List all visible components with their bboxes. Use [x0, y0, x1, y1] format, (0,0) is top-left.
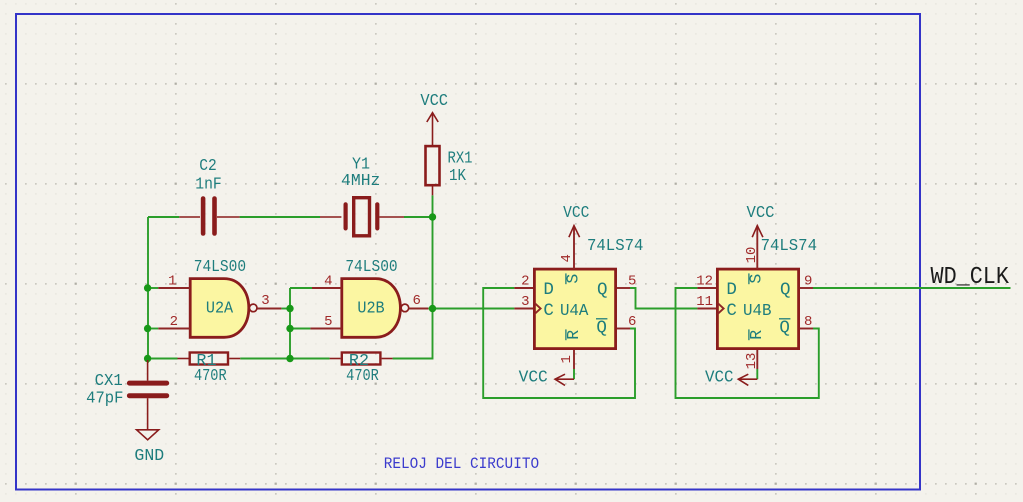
svg-text:VCC: VCC [420, 91, 448, 110]
label 47pF [86, 389, 123, 408]
pin name Rbar U4B [747, 329, 766, 340]
power VCC above RX1 [427, 113, 438, 146]
pin number 5 U4A [628, 274, 636, 290]
label 74LS74 U4B [761, 236, 817, 255]
wire C2 to Y1 [240, 216, 320, 218]
svg-text:C: C [726, 301, 737, 321]
label 470R R1 [194, 366, 227, 385]
junction node left rail pin2 [144, 325, 151, 332]
power VCC above U4B [752, 226, 763, 238]
svg-text:2: 2 [521, 274, 529, 290]
wire node to U2B pin5 [290, 328, 310, 330]
pin name C U4B [726, 301, 737, 321]
nand gate U2A [158, 279, 281, 338]
svg-text:1: 1 [168, 274, 176, 290]
pin number 1 U4A [559, 355, 575, 363]
component labels group [86, 91, 817, 465]
label U4B [743, 301, 772, 320]
svg-text:RX1: RX1 [448, 149, 473, 168]
power VCC below U4A pin1 [555, 374, 574, 385]
label C2 [199, 156, 217, 175]
svg-text:4MHz: 4MHz [341, 171, 380, 190]
wire U4A pin1 to VCC [573, 369, 575, 379]
svg-text:RELOJ DEL CIRCUITO: RELOJ DEL CIRCUITO [384, 455, 539, 473]
svg-text:U2B: U2B [357, 299, 384, 318]
label 74LS74 U4A [587, 236, 643, 255]
wire left rail vertical [147, 217, 149, 363]
pin name C U4A [543, 301, 554, 321]
pin name Qbar U4A [596, 318, 607, 338]
pin name D U4A [543, 280, 554, 300]
label 470R R2 [346, 366, 379, 385]
ground [137, 430, 159, 440]
wire left rail to R1 [148, 358, 178, 360]
wires group [148, 195, 1011, 398]
svg-text:4: 4 [559, 254, 575, 262]
label VCC below U4A [519, 368, 548, 387]
pin number 12 U4B [696, 274, 713, 290]
svg-text:VCC: VCC [519, 368, 548, 387]
wire R1 to R2 [240, 358, 329, 360]
capacitor CX1 [129, 360, 166, 430]
label VCC above RX1 [420, 91, 448, 110]
svg-text:VCC: VCC [563, 203, 589, 222]
svg-text:5: 5 [628, 274, 636, 290]
svg-text:U4A: U4A [560, 301, 589, 320]
svg-text:6: 6 [413, 293, 421, 309]
svg-text:C: C [543, 301, 554, 321]
pin name Qbar U4B [779, 318, 790, 338]
wire U4A feedback loop Qbar to D [483, 288, 635, 398]
pin number 4 U2B [324, 274, 332, 290]
wire U4A Q to U4B clock [630, 288, 697, 309]
pin name Sbar U4A [564, 273, 583, 284]
wire U2B out to U4A clock [428, 308, 514, 310]
label CX1 [95, 371, 123, 390]
flip-flop U4A [514, 226, 630, 369]
label 1K [449, 166, 466, 185]
svg-text:470R: 470R [346, 366, 379, 385]
label VCC below U4B [705, 368, 734, 387]
label 74LS00 U2B [345, 257, 397, 276]
svg-text:Q: Q [779, 318, 790, 338]
power VCC below U4B pin13 [738, 374, 757, 385]
pin number 2 U2A [170, 314, 178, 330]
svg-text:Q: Q [780, 280, 791, 300]
svg-text:WD_CLK: WD_CLK [931, 264, 1010, 291]
pin number 6 U2B [413, 293, 421, 309]
wire node to U2B pin4 [290, 287, 312, 289]
pin name Q U4A [597, 280, 608, 300]
capacitor C2 [179, 199, 239, 234]
svg-text:13: 13 [744, 353, 760, 370]
pin number 13 U4B [744, 353, 760, 370]
pin number 3 U4A [521, 294, 529, 310]
pin number 2 U4A [521, 274, 529, 290]
svg-text:1K: 1K [449, 166, 466, 185]
sheet title RELOJ DEL CIRCUITO [384, 455, 539, 473]
svg-text:6: 6 [628, 314, 636, 330]
svg-text:VCC: VCC [705, 368, 734, 387]
svg-text:R: R [564, 330, 583, 340]
wire U2A pin3 to node [281, 308, 290, 310]
pin number 8 U4B [804, 314, 812, 330]
svg-text:U4B: U4B [743, 301, 772, 320]
svg-text:C2: C2 [199, 156, 217, 175]
label 4MHz [341, 171, 380, 190]
junction node left rail pin1 [144, 284, 151, 291]
label U4A [560, 301, 589, 320]
nand gate U2B [310, 279, 428, 338]
svg-text:11: 11 [696, 294, 713, 310]
wire U4B pin13 to VCC [756, 369, 758, 379]
resistor R2 [330, 353, 393, 365]
wire C2 left to left rail [148, 216, 179, 218]
label VCC above U4A [563, 203, 589, 222]
junction node left rail R1 [144, 355, 151, 362]
junction node x290 R wire [286, 355, 293, 362]
svg-text:1nF: 1nF [195, 175, 222, 194]
svg-text:Q: Q [596, 318, 607, 338]
label U2A [206, 299, 233, 318]
pin number 10 U4B [744, 247, 760, 264]
junction node RX1 bottom [429, 213, 436, 220]
junction node x290 U2A out [286, 305, 293, 312]
pin number 5 U2B [324, 314, 332, 330]
net label WD_CLK [931, 264, 1010, 291]
pin name Rbar U4A [564, 329, 583, 340]
pin number 1 U2A [168, 274, 176, 290]
svg-text:R: R [747, 330, 766, 340]
svg-text:CX1: CX1 [95, 371, 123, 390]
svg-text:3: 3 [261, 293, 269, 309]
wire U4B Q output to WD_CLK [813, 287, 1011, 289]
label RX1 [448, 149, 473, 168]
label 1nF [195, 175, 222, 194]
pin numbers group [168, 247, 812, 370]
svg-text:74LS74: 74LS74 [587, 236, 643, 255]
flip-flop U4B [697, 226, 813, 369]
junction node x290 pin5 [286, 325, 293, 332]
svg-text:1: 1 [559, 355, 575, 363]
wire vertical x=290 [289, 288, 291, 359]
wire RX1 bottom to node [432, 195, 434, 217]
svg-text:470R: 470R [194, 366, 227, 385]
svg-text:5: 5 [324, 314, 332, 330]
wire left rail to U2A pin2 [148, 328, 158, 330]
pin number 11 U4B [696, 294, 713, 310]
pin number 9 U4B [804, 274, 812, 290]
svg-text:D: D [543, 280, 554, 300]
svg-text:VCC: VCC [747, 203, 775, 222]
power VCC above U4A [569, 226, 580, 238]
svg-text:74LS74: 74LS74 [761, 236, 817, 255]
svg-text:9: 9 [804, 274, 812, 290]
svg-text:12: 12 [696, 274, 713, 290]
label R1 [196, 351, 216, 370]
pin number 3 U2A [261, 293, 269, 309]
label R2 [349, 351, 369, 370]
label Y1 [352, 155, 370, 174]
svg-text:3: 3 [521, 294, 529, 310]
resistor R1 [178, 353, 241, 365]
resistor RX1 [426, 146, 440, 195]
junction node U2B output [429, 305, 436, 312]
crystal Y1 [320, 198, 404, 236]
svg-text:Q: Q [597, 280, 608, 300]
label VCC above U4B [747, 203, 775, 222]
svg-text:47pF: 47pF [86, 389, 123, 408]
pin name Q U4B [780, 280, 791, 300]
wire Y1 to node VCC-R [404, 216, 432, 218]
svg-text:GND: GND [134, 446, 164, 465]
label U2B [357, 299, 384, 318]
wire left rail to U2A pin1 [148, 287, 158, 289]
svg-text:2: 2 [170, 314, 178, 330]
svg-text:74LS00: 74LS00 [194, 257, 246, 276]
wire vertical x=432.5 node to R2 corner [393, 217, 433, 359]
pin number 6 U4A [628, 314, 636, 330]
svg-text:4: 4 [324, 274, 332, 290]
svg-text:D: D [726, 280, 737, 300]
svg-text:10: 10 [744, 247, 760, 264]
pin number 4 U4A [559, 254, 575, 262]
svg-text:74LS00: 74LS00 [345, 257, 397, 276]
pin name D U4B [726, 280, 737, 300]
label GND [134, 446, 164, 465]
svg-text:8: 8 [804, 314, 812, 330]
pin name Sbar U4B [747, 273, 766, 284]
wire U4B feedback loop Qbar to D [676, 288, 819, 398]
label 74LS00 U2A [194, 257, 246, 276]
svg-text:U2A: U2A [206, 299, 233, 318]
